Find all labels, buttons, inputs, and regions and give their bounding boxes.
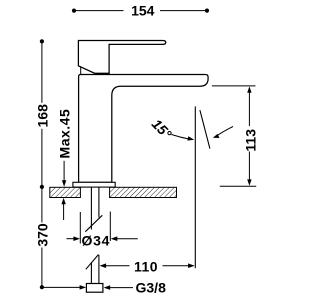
Max.45 down arrow: [63, 161, 65, 181]
head bottom thick line: [95, 73, 110, 75]
connector nut G3/8: [86, 284, 103, 293]
dim 154 left dot: [72, 9, 76, 13]
countertop right hatched block: [110, 187, 177, 197]
faucet head with lever: [78, 41, 165, 74]
svg-text:Max.45: Max.45: [56, 109, 72, 159]
dim 110 right arrowhead: [188, 263, 195, 268]
base flange: [73, 182, 115, 187]
dim O34 left arrow: [67, 238, 75, 240]
G3/8 leader arrow: [110, 287, 134, 289]
dim O34 extension line right: [109, 212, 111, 242]
svg-text:G3/8: G3/8: [136, 279, 167, 295]
dim 370 bottom dot: [40, 285, 44, 289]
faucet body and spout: [79, 75, 209, 183]
dim 154 line: [74, 10, 207, 12]
countertop left hatched block: [50, 187, 81, 197]
dim 113 up arrowhead: [247, 86, 251, 92]
svg-text:Ø34: Ø34: [82, 233, 111, 249]
dim 113 extension tick top: [212, 85, 256, 87]
dim 113 down arrowhead: [247, 179, 251, 185]
dim 110 left arrowhead: [100, 263, 107, 268]
shank tube: [91, 187, 99, 284]
head spout outlet notch: [80, 67, 82, 75]
15deg vertical reference line: [194, 106, 196, 268]
dim O34 right arrow: [116, 238, 138, 240]
svg-text:370: 370: [35, 223, 51, 247]
svg-text:113: 113: [242, 129, 258, 152]
dim 110 line: [106, 265, 189, 267]
dim O34 extension line left: [79, 212, 81, 244]
pipe break mark lower: [86, 255, 99, 270]
Max.45 up arrow: [63, 204, 65, 221]
15deg left leader arrow: [172, 135, 191, 140]
dim 113 line: [248, 92, 250, 182]
svg-text:110: 110: [134, 259, 158, 275]
15deg tilted stream line: [200, 110, 210, 149]
dim 113 extension tick bottom: [220, 185, 256, 187]
dim 168 line: [41, 41, 43, 187]
svg-text:168: 168: [35, 104, 51, 128]
svg-text:154: 154: [131, 2, 155, 18]
dim 370 leader to nut: [42, 286, 81, 288]
dim 168 bottom dot: [40, 185, 44, 189]
dim 154 right dot: [205, 9, 209, 13]
pipe break mark upper: [85, 215, 102, 231]
15deg right leader arrow: [217, 127, 234, 137]
dim 168 top dot: [40, 39, 44, 43]
dim 370 line: [41, 187, 43, 287]
